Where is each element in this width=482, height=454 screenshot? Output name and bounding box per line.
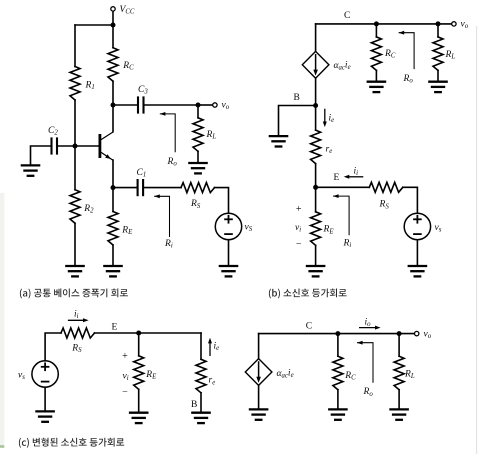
ground RC d — [328, 409, 348, 419]
junction node E b — [313, 185, 318, 190]
wire RC top b — [375, 24, 377, 37]
svg-text:+: + — [122, 351, 128, 362]
resistor R2 — [70, 190, 80, 224]
junction output node — [196, 103, 201, 108]
wire RL top b — [437, 24, 439, 37]
resistor R1 — [70, 67, 80, 101]
svg-text:re: re — [326, 145, 333, 156]
ground RE — [103, 266, 123, 276]
svg-text:αacie: αacie — [334, 61, 351, 72]
wire vs to RS c — [45, 333, 61, 361]
wire C1 to RS — [143, 187, 181, 189]
wire to vo terminal — [198, 104, 212, 106]
svg-text:RS: RS — [71, 343, 82, 354]
svg-text:re: re — [209, 376, 216, 387]
svg-text:RE: RE — [145, 370, 157, 381]
wire C3 to output node — [144, 104, 199, 106]
svg-text:vs: vs — [18, 371, 25, 382]
wire RE top c — [138, 333, 140, 356]
junction RC b — [374, 21, 379, 26]
arrow ie b — [323, 109, 327, 127]
svg-text:E: E — [334, 173, 340, 183]
terminal vo d — [415, 331, 419, 335]
svg-text:+: + — [296, 204, 302, 215]
wire RS to vs — [215, 188, 229, 214]
svg-text:RE: RE — [121, 225, 133, 236]
ground RC b — [367, 82, 387, 92]
current source alpha-ac ie b — [302, 51, 329, 78]
svg-text:RC: RC — [122, 61, 134, 72]
wire to current source — [315, 24, 317, 52]
junction emitter node — [111, 185, 116, 190]
wire RL bottom b — [437, 70, 439, 81]
resistor RE c — [134, 356, 144, 390]
wire RL bottom d — [398, 390, 400, 410]
wire RL top d — [398, 334, 400, 357]
junction Vcc rail — [111, 23, 116, 28]
wire RC top d — [337, 334, 339, 357]
arrow ie c — [208, 338, 212, 356]
wire RS to vs b — [403, 187, 418, 213]
wire to source d — [258, 334, 260, 359]
wire R1 top — [74, 25, 76, 67]
resistor RE b — [311, 212, 321, 246]
ground RL d — [389, 409, 409, 419]
ground R2 — [65, 266, 85, 276]
wire top rail — [75, 24, 113, 26]
transistor Q1 — [100, 132, 113, 160]
caption (c) — [19, 438, 124, 448]
svg-text:−: − — [296, 239, 302, 250]
arrow Ro d — [357, 341, 373, 383]
wire RC bottom d — [337, 390, 339, 410]
resistor RC d — [333, 356, 343, 390]
capacitor C2 — [52, 137, 58, 154]
svg-text:ii: ii — [74, 310, 79, 321]
arrow Ri a — [154, 194, 169, 237]
svg-text:RL: RL — [404, 370, 415, 381]
page corner green bar — [0, 445, 4, 448]
svg-text:C2: C2 — [48, 126, 58, 137]
svg-text:Ri: Ri — [343, 239, 352, 250]
caption (a) — [20, 289, 128, 299]
current source alpha-ac ie d — [245, 359, 272, 386]
svg-text:VCC: VCC — [120, 5, 135, 16]
svg-text:C: C — [344, 11, 350, 21]
wire vs ground c — [44, 387, 46, 411]
svg-text:vi: vi — [123, 372, 129, 383]
capacitor C3 — [138, 96, 144, 113]
svg-text:vi: vi — [295, 223, 301, 234]
wire RC to collector — [112, 81, 114, 105]
wire RC bottom b — [375, 70, 377, 81]
resistor RE — [108, 212, 118, 246]
wire ground to C2 — [31, 146, 52, 165]
wire re top — [315, 106, 317, 131]
wire RC top — [112, 25, 114, 48]
arrow ii c — [68, 318, 89, 322]
svg-text:ie: ie — [329, 114, 335, 125]
junction E c — [136, 331, 141, 336]
svg-text:B: B — [294, 93, 300, 103]
ground RL b — [428, 82, 448, 92]
terminal vo — [213, 103, 217, 107]
svg-text:R2: R2 — [83, 204, 94, 215]
wire emitter to C1 — [113, 187, 138, 189]
svg-text:C3: C3 — [138, 85, 148, 96]
ground source d — [249, 409, 269, 419]
svg-text:vo: vo — [424, 330, 432, 341]
resistor re b — [311, 130, 321, 164]
wire RE bottom b — [315, 245, 317, 266]
svg-text:Ri: Ri — [164, 239, 173, 250]
arrow ii b — [344, 175, 364, 179]
svg-text:vs: vs — [435, 223, 442, 234]
terminal vo b — [452, 22, 456, 26]
wire source ground d — [258, 385, 260, 409]
wire B to ground — [279, 106, 316, 137]
wire R1 to base node — [74, 100, 76, 146]
svg-text:E: E — [112, 322, 118, 332]
wire top rail d — [259, 333, 417, 335]
wire RE bottom c — [138, 389, 140, 412]
ground RL — [188, 163, 208, 173]
resistor RL d — [394, 356, 404, 390]
svg-text:αacie: αacie — [277, 369, 294, 380]
resistor RL — [193, 118, 203, 152]
wire RE top — [112, 188, 114, 212]
source vs a — [215, 213, 241, 239]
svg-text:RC: RC — [344, 371, 356, 382]
wire vs to ground — [228, 240, 230, 266]
resistor re c — [196, 359, 206, 393]
ground vs a — [219, 266, 239, 276]
wire R2 top — [74, 146, 76, 190]
svg-text:ii: ii — [354, 166, 359, 177]
svg-text:ie: ie — [214, 342, 220, 353]
wire E to re c — [139, 332, 201, 334]
ground RE b — [306, 266, 326, 276]
wire RL bottom — [197, 151, 199, 163]
svg-text:RS: RS — [190, 199, 201, 210]
wire vs ground b — [416, 240, 418, 266]
ground vs c — [35, 411, 55, 421]
source vs b — [404, 213, 430, 239]
page right edge line — [476, 26, 477, 454]
wire collector lead — [112, 105, 114, 132]
resistor RC b — [371, 37, 381, 71]
wire Vcc stub — [112, 12, 114, 25]
arrow Ro — [160, 112, 175, 152]
wire collector to C3 — [113, 104, 138, 106]
wire RS to E c — [95, 332, 139, 334]
wire source to B — [315, 78, 317, 105]
arrow Ro b — [399, 31, 415, 69]
resistor RS a — [181, 183, 215, 193]
ground vs b — [408, 266, 428, 276]
capacitor C1 — [138, 179, 144, 196]
wire top rail b — [316, 23, 454, 25]
svg-text:RS: RS — [379, 200, 390, 211]
wire emitter lead — [112, 160, 114, 188]
svg-text:−: − — [122, 387, 128, 398]
resistor RL b — [433, 37, 443, 71]
svg-text:RL: RL — [206, 130, 217, 141]
junction collector node — [111, 103, 116, 108]
resistor RS b — [369, 182, 403, 192]
svg-text:B: B — [191, 400, 197, 410]
arrow io d — [359, 326, 381, 330]
wire re bottom c — [200, 393, 202, 413]
arrow Ri b — [333, 194, 349, 235]
resistor RS c — [61, 328, 95, 338]
svg-text:R1: R1 — [85, 81, 95, 92]
wire RL top — [197, 105, 199, 118]
junction RC d — [335, 331, 340, 336]
wire R2 bottom — [74, 223, 76, 266]
caption (b) — [269, 289, 347, 299]
svg-text:C: C — [306, 322, 312, 332]
svg-text:vo: vo — [222, 101, 230, 112]
svg-text:RE: RE — [323, 225, 335, 236]
source vs c — [32, 361, 58, 387]
svg-text:io: io — [365, 317, 372, 328]
terminal VCC — [111, 7, 115, 11]
page left edge strip — [0, 193, 4, 447]
svg-text:Ro: Ro — [167, 157, 178, 168]
ground C2 — [21, 165, 41, 175]
svg-text:Ro: Ro — [403, 74, 414, 85]
wire re to E — [315, 164, 317, 188]
svg-text:vS: vS — [245, 223, 253, 234]
wire re top c — [200, 333, 202, 359]
wire C2 to base — [57, 145, 99, 147]
svg-text:RC: RC — [384, 49, 396, 60]
wire RE bottom — [112, 245, 114, 266]
svg-text:vo: vo — [461, 20, 469, 31]
junction base node — [73, 144, 78, 149]
svg-text:Ro: Ro — [363, 387, 374, 398]
svg-text:C1: C1 — [137, 168, 147, 179]
ground re c — [191, 413, 211, 423]
junction node B — [313, 103, 318, 108]
ground B — [269, 136, 289, 146]
ground RE c — [129, 413, 149, 423]
svg-text:RL: RL — [445, 50, 456, 61]
wire E to RS b — [316, 186, 370, 188]
junction RL d — [397, 331, 402, 336]
resistor RC — [108, 48, 118, 81]
wire RE top b — [315, 187, 317, 212]
junction RL b — [436, 21, 441, 26]
